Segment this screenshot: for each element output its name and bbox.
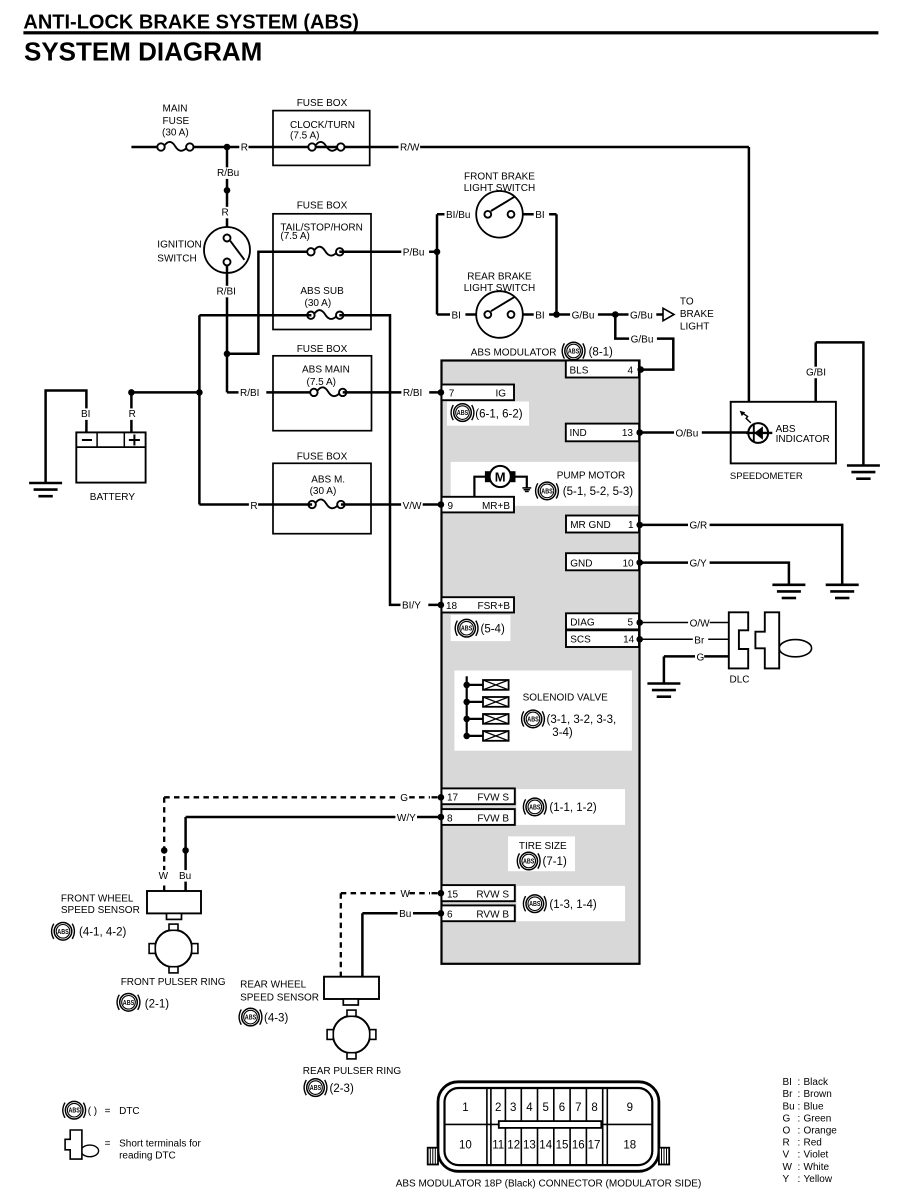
svg-text:FVW S: FVW S	[477, 793, 509, 804]
svg-text:SWITCH: SWITCH	[157, 253, 196, 264]
svg-text:M: M	[495, 469, 506, 484]
svg-text:BI: BI	[535, 210, 544, 221]
abs badge 3-1	[522, 710, 545, 728]
svg-text:BI: BI	[783, 1077, 792, 1088]
node R junction ignition feed	[224, 144, 231, 151]
gray modulator body	[442, 361, 640, 964]
svg-text:R: R	[241, 143, 248, 154]
node BLS branch	[612, 311, 619, 318]
label V/W	[401, 500, 423, 512]
connector inner shell	[445, 1088, 653, 1165]
svg-text:G/Bu: G/Bu	[630, 310, 653, 321]
svg-text:SOLENOID VALVE: SOLENOID VALVE	[523, 692, 609, 703]
terminal 7 IG	[442, 385, 515, 401]
node BLS pin 4	[637, 366, 644, 373]
svg-text:Y: Y	[783, 1174, 790, 1185]
ground DLC G	[647, 684, 680, 697]
label Bu rear	[398, 908, 413, 920]
svg-text:Orange: Orange	[804, 1126, 838, 1137]
svg-text::: :	[798, 1101, 801, 1112]
node MR+B pin 9	[438, 501, 445, 508]
connector left tab	[428, 1148, 438, 1165]
abs modulator label	[471, 348, 557, 359]
fuse F2 TAIL/STOP/HORN	[307, 247, 343, 256]
solenoid bus wire	[466, 676, 468, 736]
rear wheel speed sensor	[324, 977, 379, 1005]
svg-text:O/Bu: O/Bu	[676, 428, 699, 439]
svg-text:G/BI: G/BI	[806, 368, 826, 379]
svg-text:15: 15	[556, 1140, 569, 1152]
svg-text::: :	[798, 1126, 801, 1137]
svg-text::: :	[798, 1150, 801, 1161]
wire battery plus up	[130, 392, 133, 432]
svg-text:R/BI: R/BI	[403, 388, 422, 399]
svg-text:ABS MAIN: ABS MAIN	[302, 365, 350, 376]
abs indicator label	[776, 424, 830, 445]
svg-text:W: W	[159, 871, 169, 882]
fuse F3 ABS SUB (30A)	[307, 310, 343, 319]
label P/Bu	[401, 247, 429, 259]
fuse F4 ABS MAIN (7.5A)	[310, 387, 346, 396]
svg-text:4: 4	[627, 366, 633, 377]
svg-text:RVW B: RVW B	[476, 910, 509, 921]
svg-text:( ): ( )	[88, 1106, 97, 1117]
svg-text:(7.5 A): (7.5 A)	[307, 377, 336, 388]
svg-text:2: 2	[495, 1102, 501, 1114]
wire brake switch feed vertical	[436, 214, 439, 314]
svg-text:MAIN: MAIN	[163, 103, 188, 114]
svg-text:17: 17	[447, 793, 459, 804]
wire Bu solid rear	[362, 913, 441, 976]
dtc ref (1-3, 1-4)	[549, 899, 596, 911]
wire junction to ABS MAIN fuse	[227, 391, 314, 394]
fuse box 1 outline	[273, 111, 370, 166]
pump motor panel	[451, 462, 639, 506]
wire G/Y to ground	[640, 563, 789, 585]
node FSR+B pin 18	[438, 602, 445, 609]
svg-text:DTC: DTC	[119, 1106, 140, 1117]
wire battery minus to ground	[46, 391, 87, 484]
abs badge 5-1	[536, 482, 559, 500]
rear sensor label	[240, 980, 319, 1004]
svg-text:Yellow: Yellow	[804, 1174, 833, 1185]
svg-text:ANTI-LOCK BRAKE SYSTEM (ABS): ANTI-LOCK BRAKE SYSTEM (ABS)	[23, 12, 359, 34]
svg-text:9: 9	[627, 1102, 633, 1114]
svg-text:1: 1	[462, 1102, 468, 1114]
svg-text:W: W	[401, 889, 411, 900]
wire G/BI	[816, 341, 864, 465]
fuse box 2 label	[297, 200, 348, 211]
node battery feed junction	[128, 389, 135, 396]
svg-text:10: 10	[459, 1140, 472, 1152]
svg-text:MR GND: MR GND	[570, 520, 611, 531]
svg-text:G/Y: G/Y	[690, 558, 708, 569]
battery B1	[76, 432, 145, 482]
node FVW S pin 17	[438, 794, 445, 801]
svg-text:V/W: V/W	[403, 501, 422, 512]
label R/BI to IG	[401, 387, 429, 399]
wire ignition to junction	[226, 266, 229, 393]
dtc ref (1-1, 1-2)	[549, 802, 596, 814]
svg-text:FUSE BOX: FUSE BOX	[297, 98, 348, 109]
svg-text:O: O	[783, 1126, 791, 1137]
wire G down to ground	[663, 656, 666, 683]
svg-text:Bu: Bu	[399, 909, 411, 920]
svg-text:FVW B: FVW B	[477, 813, 509, 824]
svg-text:SPEEDOMETER: SPEEDOMETER	[730, 471, 803, 482]
wire R to ignition switch	[226, 147, 229, 235]
svg-text:SCS: SCS	[570, 635, 591, 646]
solenoid panel	[454, 671, 632, 751]
wire W/Y solid	[186, 817, 441, 891]
connector outer shell	[438, 1082, 659, 1172]
svg-text:7: 7	[449, 389, 455, 400]
svg-text:R: R	[222, 208, 229, 219]
fuse F1 CLOCK/TURN	[308, 142, 344, 151]
svg-text:FRONT WHEEL: FRONT WHEEL	[61, 894, 134, 905]
terminal 6 RVW B	[442, 905, 515, 921]
dtc ref (6-1, 6-2)	[475, 409, 522, 421]
section title	[24, 37, 262, 67]
svg-text:(7.5 A): (7.5 A)	[280, 231, 309, 242]
svg-text:9: 9	[448, 501, 454, 512]
svg-text:Short terminals for: Short terminals for	[119, 1139, 201, 1150]
wire to rear brake switch	[437, 313, 476, 316]
svg-text:reading DTC: reading DTC	[119, 1151, 176, 1162]
svg-text:TO: TO	[680, 297, 694, 308]
svg-text:FSR+B: FSR+B	[477, 601, 510, 612]
svg-text:BI/Y: BI/Y	[402, 601, 421, 612]
terminal GND 10	[566, 553, 639, 570]
svg-text:5: 5	[542, 1102, 548, 1114]
label R ignition	[220, 207, 229, 219]
label G/BI	[805, 367, 833, 379]
svg-text:P/Bu: P/Bu	[403, 248, 425, 259]
svg-text:16: 16	[572, 1140, 585, 1152]
node R/Bu junction	[224, 187, 231, 194]
front wheel speed sensor	[147, 891, 201, 919]
svg-text::: :	[798, 1162, 801, 1173]
fuse box 1 label	[297, 98, 348, 109]
svg-text:1: 1	[628, 520, 634, 531]
legend short terminal symbol	[65, 1130, 99, 1159]
node GND pin 10	[636, 559, 643, 566]
node DIAG pin 5	[636, 619, 643, 626]
connector pin numbers top	[462, 1102, 633, 1114]
svg-text:G: G	[783, 1113, 791, 1124]
wire front out down to rear out	[555, 214, 558, 314]
rear pulser ring	[327, 1010, 376, 1059]
svg-text:R/BI: R/BI	[240, 388, 259, 399]
node front W connector	[161, 847, 168, 854]
connector cell dividers	[487, 1088, 607, 1164]
svg-text:IGNITION: IGNITION	[157, 239, 201, 250]
svg-text:ABS SUB: ABS SUB	[300, 286, 344, 297]
dtc ref (8-1)	[589, 346, 613, 358]
to brake light label	[680, 297, 714, 333]
label G front	[399, 792, 409, 804]
svg-text:8: 8	[591, 1102, 597, 1114]
svg-text::: :	[798, 1077, 801, 1088]
svg-text:FUSE BOX: FUSE BOX	[297, 200, 348, 211]
solenoid valves L1-L4	[463, 680, 508, 741]
abs badge 4-1	[52, 923, 75, 941]
svg-text:4: 4	[526, 1102, 533, 1114]
abs badge 8-1	[562, 342, 585, 360]
label BI/Bu	[445, 209, 479, 221]
wire main fuse to clock fuse	[194, 146, 749, 149]
dtc panel 6-1	[447, 402, 529, 426]
wire BLS branch	[615, 315, 673, 370]
svg-text:Violet: Violet	[804, 1150, 829, 1161]
legend short terminal text	[105, 1139, 202, 1162]
svg-text:(8-1): (8-1)	[589, 346, 613, 358]
wire Br to DLC	[640, 638, 729, 640]
svg-text:FUSE BOX: FUSE BOX	[297, 344, 348, 355]
front brake light switch label	[464, 172, 536, 195]
speedometer box	[731, 402, 836, 464]
node MR GND pin 1	[636, 522, 643, 529]
svg-text::: :	[798, 1138, 801, 1149]
wire front switch out	[523, 213, 557, 216]
svg-text:BI: BI	[81, 409, 90, 420]
svg-text:BLS: BLS	[570, 365, 589, 376]
ground battery	[29, 483, 62, 496]
wire G to DLC	[664, 655, 729, 658]
svg-text:ABS: ABS	[527, 714, 539, 723]
svg-text:White: White	[804, 1162, 830, 1173]
node front Bu connector	[182, 847, 189, 854]
DLC short-terminal loop	[779, 640, 811, 657]
svg-text:(3-1, 3-2, 3-3,: (3-1, 3-2, 3-3,	[547, 714, 617, 726]
svg-text:(7.5 A): (7.5 A)	[290, 130, 319, 141]
svg-text:IND: IND	[570, 428, 587, 439]
pump motor label	[557, 471, 626, 482]
fuse F4 ABS MAIN value label	[302, 365, 350, 388]
svg-text:ABS MODULATOR: ABS MODULATOR	[471, 348, 557, 359]
label W rear	[399, 888, 411, 900]
rear brake light switch S3	[476, 291, 523, 338]
svg-text:Bu: Bu	[179, 871, 191, 882]
rear pulser ring label	[303, 1066, 402, 1077]
svg-text:DIAG: DIAG	[570, 618, 595, 629]
label O/W	[688, 618, 710, 630]
dtc ref (3-1...)	[547, 714, 617, 739]
node FVW B pin 8	[438, 814, 445, 821]
svg-text:FRONT PULSER RING: FRONT PULSER RING	[121, 977, 226, 988]
svg-text:Brown: Brown	[804, 1089, 832, 1100]
svg-text:ABS: ABS	[123, 998, 135, 1007]
label R/W	[399, 142, 421, 154]
label R/Bu	[216, 167, 244, 179]
svg-text:(5-4): (5-4)	[481, 623, 505, 635]
svg-text:(5-1, 5-2, 5-3): (5-1, 5-2, 5-3)	[563, 486, 633, 498]
wire G dashed front	[164, 796, 437, 798]
svg-text:G/Bu: G/Bu	[572, 310, 595, 321]
node front/rear join	[553, 311, 560, 318]
fuse F1 CLOCK/TURN value label	[290, 120, 355, 141]
speedometer label	[730, 471, 803, 482]
svg-text:(1-3, 1-4): (1-3, 1-4)	[549, 899, 596, 911]
terminal SCS 14	[566, 630, 639, 647]
label R battery	[127, 408, 136, 420]
legend abs badge	[63, 1101, 86, 1119]
label R abs-m in	[249, 500, 258, 512]
svg-text:IG: IG	[495, 389, 506, 400]
terminal 18 FSR+B	[442, 597, 515, 612]
abs badge 7-1	[517, 852, 540, 870]
wire W dashed rear	[341, 893, 438, 977]
wire G/R to ground	[640, 525, 843, 585]
wire abs-sub out down to FSR	[339, 315, 441, 605]
tire size panel	[508, 836, 575, 871]
dtc ref (5-1, 5-2, 5-3)	[563, 486, 633, 498]
label O/Bu	[674, 428, 702, 440]
svg-text:REAR BRAKE: REAR BRAKE	[467, 272, 532, 283]
label BI front out	[534, 209, 549, 221]
svg-text:6: 6	[559, 1102, 565, 1114]
svg-text:SPEED SENSOR: SPEED SENSOR	[61, 905, 140, 916]
svg-text:14: 14	[539, 1140, 552, 1152]
svg-text:LIGHT: LIGHT	[680, 322, 709, 333]
svg-text:17: 17	[588, 1140, 601, 1152]
node IND pin 13	[636, 429, 643, 436]
svg-text:13: 13	[622, 428, 634, 439]
svg-text:6: 6	[447, 910, 453, 921]
fuse F5 ABS M value label	[310, 475, 346, 497]
svg-text:R/W: R/W	[400, 142, 420, 153]
terminal 15 RVW S	[442, 885, 515, 901]
svg-text:G: G	[400, 793, 408, 804]
wire tail fuse to P/Bu	[339, 251, 437, 254]
svg-text:5: 5	[627, 618, 633, 629]
svg-text:REAR PULSER RING: REAR PULSER RING	[303, 1066, 402, 1077]
svg-text::: :	[798, 1089, 801, 1100]
dtc panel 1-1	[517, 789, 626, 825]
label BI rear in	[450, 310, 465, 322]
svg-text:TIRE SIZE: TIRE SIZE	[519, 841, 567, 852]
svg-text:Blue: Blue	[804, 1101, 824, 1112]
solenoid valve label	[523, 692, 609, 703]
terminal 9 MR+B	[442, 497, 515, 513]
svg-text:R/BI: R/BI	[217, 287, 236, 298]
svg-text:ABS: ABS	[541, 486, 553, 495]
connector pin numbers bottom	[459, 1140, 636, 1152]
wire O/Bu to indicator	[640, 431, 748, 434]
svg-text:(30 A): (30 A)	[310, 486, 337, 497]
svg-text:11: 11	[492, 1140, 504, 1152]
svg-text:3: 3	[510, 1102, 516, 1114]
svg-text:(7-1): (7-1)	[543, 856, 567, 868]
dtc panel 1-3	[517, 886, 626, 921]
svg-text:SPEED SENSOR: SPEED SENSOR	[240, 993, 319, 1004]
wire abs-m to MR+B	[341, 503, 441, 506]
svg-text:FUSE: FUSE	[163, 116, 190, 127]
dtc ref (4-1, 4-2)	[79, 927, 126, 939]
connector key slot	[499, 1121, 602, 1128]
node SCS pin 14	[636, 636, 643, 643]
wire to front brake switch	[437, 213, 476, 216]
svg-text:ABS: ABS	[461, 624, 473, 633]
label BI battery	[80, 408, 95, 420]
svg-text:R: R	[250, 501, 257, 512]
fuse box 4 label	[297, 452, 348, 463]
svg-text:ABS: ABS	[529, 802, 541, 811]
wire battery+ to main fuse	[131, 146, 157, 149]
svg-text:ABS: ABS	[568, 347, 580, 356]
svg-text:REAR WHEEL: REAR WHEEL	[240, 980, 307, 991]
fuse box 3 label	[297, 344, 348, 355]
svg-text:BI: BI	[452, 310, 461, 321]
label BI/Y	[401, 600, 429, 612]
svg-text:ABS: ABS	[57, 927, 69, 936]
label W front	[157, 870, 169, 882]
arrow to brake light	[663, 308, 674, 321]
svg-text:BATTERY: BATTERY	[90, 492, 136, 503]
svg-text:Br: Br	[783, 1089, 794, 1100]
node RVW B pin 6	[438, 910, 445, 917]
dtc ref (4-3)	[264, 1012, 288, 1024]
terminal 17 FVW S	[442, 788, 515, 804]
main fuse label	[162, 103, 190, 138]
svg-text:FUSE BOX: FUSE BOX	[297, 452, 348, 463]
svg-text:=: =	[105, 1139, 111, 1150]
svg-text:PUMP MOTOR: PUMP MOTOR	[557, 471, 626, 482]
connector caption	[396, 1179, 702, 1190]
ground speedometer	[847, 466, 880, 479]
svg-text:(2-3): (2-3)	[330, 1083, 354, 1095]
title rule	[23, 31, 878, 34]
svg-text:ABS: ABS	[69, 1106, 81, 1115]
svg-text:FRONT BRAKE: FRONT BRAKE	[464, 172, 535, 183]
svg-text:13: 13	[523, 1140, 536, 1152]
svg-text:INDICATOR: INDICATOR	[776, 434, 830, 445]
node ignition out junction	[224, 351, 231, 358]
ignition switch S1	[204, 227, 250, 273]
svg-text:GND: GND	[570, 559, 592, 570]
svg-text:W: W	[783, 1162, 793, 1173]
svg-text:V: V	[783, 1150, 790, 1161]
abs badge 4-3	[239, 1008, 262, 1026]
wire W dashed front vertical	[163, 797, 165, 891]
ground G/R	[826, 585, 859, 598]
svg-text:G/Bu: G/Bu	[631, 335, 654, 346]
fuse F5 ABS M (30A)	[308, 499, 344, 508]
label Bu front	[178, 870, 193, 882]
wire battery to bus	[131, 391, 199, 394]
wire abs-main to IG	[343, 391, 441, 394]
svg-text:18: 18	[446, 601, 458, 612]
svg-text:G: G	[697, 652, 705, 663]
front pulser ring label	[121, 977, 226, 988]
svg-text:15: 15	[447, 890, 459, 901]
abs badge 2-1	[117, 994, 140, 1012]
abs badge 2-3	[304, 1079, 327, 1097]
battery label	[90, 492, 136, 503]
node P/Bu junction	[434, 249, 441, 256]
pump motor M1	[474, 466, 526, 497]
label R/BI abs-main in	[239, 387, 267, 399]
label G/Bu 3	[629, 334, 657, 346]
wire battery bus vertical	[198, 315, 201, 504]
svg-text::: :	[798, 1174, 801, 1185]
svg-text:DLC: DLC	[730, 675, 750, 686]
svg-text:3-4): 3-4)	[552, 727, 573, 739]
terminal DIAG 5	[566, 613, 639, 629]
front pulser ring	[149, 924, 198, 973]
label G dlc	[695, 652, 705, 664]
svg-text:=: =	[105, 1106, 111, 1117]
